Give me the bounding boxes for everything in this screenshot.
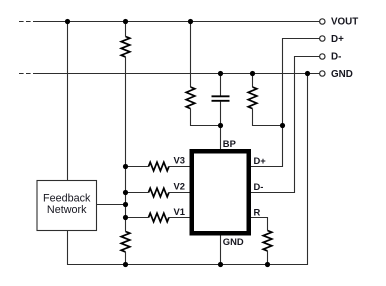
wire divider column to resistor R6 V3 (126, 166, 149, 168)
svg-text:R: R (254, 207, 261, 218)
svg-text:D-: D- (254, 181, 264, 192)
wire resistor R4 to D+ node (253, 109, 283, 126)
wire BP node to IC BP pin (220, 126, 222, 150)
resistor R4 (GND rail to D+ line) (248, 87, 257, 109)
capacitor C1 bottom plate (212, 100, 230, 102)
svg-text:Feedback: Feedback (43, 192, 91, 204)
op-amp U1 regulator IC body (192, 151, 249, 233)
wire GND rail dashed left end (19, 73, 38, 75)
svg-text:V3: V3 (174, 155, 185, 166)
wire GND rail (38, 73, 320, 75)
wire capacitor C1 to BP node (220, 102, 222, 126)
node junction dot GND rail x220.5 (218, 71, 223, 76)
svg-text:D-: D- (331, 51, 341, 62)
wire IC GND pin to bottom rail (220, 236, 222, 265)
wire Feedback Network output to divider column (97, 204, 126, 206)
wire resistor R3 to BP node (191, 109, 221, 126)
resistor R7 (V2) (149, 188, 169, 197)
wire VOUT rail to resistor R1 top (125, 22, 127, 37)
wire GND rail to capacitor C1 top plate (220, 74, 222, 96)
wire D- terminal to IC D- pin (251, 57, 320, 193)
resistor R5 (R pin to bottom rail) (263, 231, 272, 251)
wire D+ terminal to IC D+ pin (251, 39, 320, 167)
node junction dot divider V1 (123, 215, 128, 220)
wire from VOUT rail down to Feedback Network top (67, 22, 69, 181)
svg-text:BP: BP (223, 138, 236, 149)
wire VOUT rail (38, 21, 320, 23)
wire resistor R2 to bottom rail (125, 252, 127, 265)
wire divider column to resistor R7 V2 (126, 192, 149, 194)
wire resistor R5 to bottom rail (267, 251, 269, 265)
Feedback Network box (37, 181, 97, 231)
wire GND rail to resistor R4 (252, 74, 254, 88)
resistor R3 (VOUT to BP node) (186, 87, 195, 109)
wire resistor R7 to IC V2 pin (169, 192, 190, 194)
wire resistor R8 to IC V1 pin (169, 217, 190, 219)
node junction dot GND rail x307.5 (305, 71, 310, 76)
wire from Feedback Network bottom along bottom rail up to GND rail dot (68, 74, 308, 265)
node junction dot bottom rail x267.5 (265, 262, 270, 267)
node junction dot VOUT rail x67 (65, 19, 70, 24)
svg-text:V1: V1 (174, 206, 185, 217)
svg-text:Network: Network (47, 204, 87, 216)
wire VOUT rail down to resistor R3 (190, 22, 192, 88)
wire resistor R6 to IC V3 pin (169, 166, 190, 168)
terminal D- (320, 54, 325, 59)
terminal GND (320, 71, 325, 76)
node junction dot divider V2 (123, 190, 128, 195)
wire IC R pin to resistor R5 (251, 218, 268, 231)
node junction dot VOUT rail x125 (123, 19, 128, 24)
terminal D+ (320, 36, 325, 41)
wire VOUT rail dashed left end (19, 21, 38, 23)
svg-text:VOUT: VOUT (331, 16, 358, 27)
node junction dot divider V3 (123, 164, 128, 169)
node junction dot GND rail x252.5 (250, 71, 255, 76)
node junction dot divider feedback (123, 202, 128, 207)
resistor R2 (divider column bottom) (121, 232, 130, 252)
resistor R6 (V3) (149, 162, 169, 171)
terminal VOUT (320, 19, 325, 24)
node junction dot D+ line (280, 123, 285, 128)
svg-text:D+: D+ (331, 34, 344, 45)
svg-text:V2: V2 (174, 181, 185, 192)
resistor R8 (V1) (149, 213, 169, 222)
node junction dot BP node (218, 123, 223, 128)
svg-text:GND: GND (223, 236, 244, 247)
resistor R1 (VOUT rail to divider column) (121, 37, 130, 57)
node junction dot bottom rail x220.5 (218, 262, 223, 267)
capacitor C1 top plate (212, 95, 230, 97)
wire divider column (125, 57, 127, 232)
svg-text:GND: GND (331, 69, 353, 80)
wire divider column to resistor R8 V1 (126, 217, 149, 219)
svg-text:D+: D+ (254, 155, 267, 166)
node junction dot VOUT rail x190.5 (188, 19, 193, 24)
node junction dot bottom rail x125 (123, 262, 128, 267)
